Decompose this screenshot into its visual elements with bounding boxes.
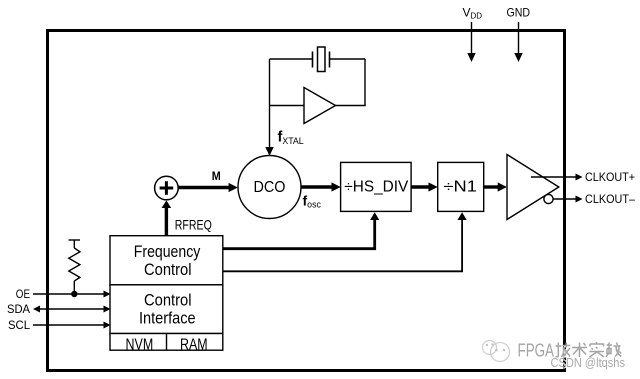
svg-text:GND: GND — [507, 5, 531, 19]
svg-text:OE: OE — [16, 287, 30, 301]
svg-text:FPGA: FPGA — [518, 341, 555, 361]
svg-text:CLKOUT–: CLKOUT– — [585, 192, 635, 206]
svg-text:Interface: Interface — [139, 310, 196, 328]
oscillator amplifier — [304, 88, 336, 124]
svg-text:Control: Control — [144, 261, 192, 279]
svg-text:CLKOUT+: CLKOUT+ — [585, 170, 635, 184]
wire: crystal top horizontal left segment — [270, 58, 313, 60]
output buffer — [507, 155, 559, 220]
svg-text:Frequency: Frequency — [134, 243, 201, 261]
wire CLKOUT+ — [531, 176, 576, 178]
wire: frequency control to N1 — [223, 219, 462, 271]
svg-text:CSDN @ltqshs: CSDN @ltqshs — [551, 356, 626, 370]
wire: HS_DIV to N1 — [411, 185, 429, 188]
inversion bubble — [544, 194, 553, 203]
fXTAL arrowhead into DCO — [265, 147, 273, 156]
divider N1 — [438, 162, 484, 211]
wire: oscillator amp output — [335, 105, 366, 107]
wire: crystal top horizontal right segment — [330, 58, 366, 60]
wire: N1 to output buffer — [484, 185, 498, 188]
wire SDA (bidirectional) — [39, 308, 104, 310]
wire fosc: DCO to HS_DIV — [301, 185, 332, 188]
wire CLKOUT- — [553, 198, 576, 200]
RFREQ arrow — [165, 207, 168, 236]
divider HS_DIV — [341, 162, 412, 211]
chip boundary box — [48, 31, 565, 371]
wire: crystal loop left vertical — [269, 59, 271, 148]
wire: frequency control to HS_DIV — [223, 219, 375, 249]
svg-text:NVM: NVM — [126, 336, 154, 353]
Frequency Control block — [110, 236, 223, 285]
wire OE — [33, 293, 104, 295]
watermark wechat logo — [483, 341, 510, 362]
svg-text:÷HS_DIV: ÷HS_DIV — [344, 178, 409, 195]
wire M: summing junction to DCO — [178, 186, 229, 189]
svg-text:DCO: DCO — [254, 179, 286, 196]
junction dot OE/resistor — [71, 291, 77, 297]
svg-text:SCL: SCL — [8, 318, 30, 332]
pull-up resistor on OE — [69, 240, 81, 294]
watermark text FPGA — [518, 341, 556, 362]
svg-text:SDA: SDA — [7, 302, 30, 316]
DCO — [238, 156, 301, 219]
wire: oscillator amp input — [270, 105, 305, 107]
Control Interface block — [110, 285, 223, 334]
NVM / RAM row — [110, 334, 223, 351]
GND supply arrow — [518, 22, 520, 54]
wire: crystal loop right vertical — [364, 59, 366, 106]
svg-text:Control: Control — [144, 291, 192, 309]
svg-text:RFREQ: RFREQ — [175, 217, 212, 233]
svg-text:÷N1: ÷N1 — [444, 178, 478, 195]
svg-text:RAM: RAM — [180, 336, 208, 353]
crystal Y1 — [313, 47, 330, 72]
wire SCL — [33, 324, 104, 326]
watermark CSDN @ltqshs — [551, 356, 627, 371]
VDD supply arrow — [471, 22, 473, 54]
summing junction — [155, 176, 179, 200]
svg-text:M: M — [212, 171, 221, 183]
watermark CJK glyphs (drawn) — [557, 343, 623, 358]
